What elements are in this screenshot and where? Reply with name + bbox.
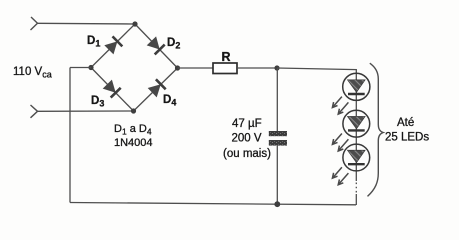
diode D1 <box>104 36 122 54</box>
diode D3 <box>103 80 121 98</box>
wire: bridge edge top-right (T node to R node) <box>135 24 178 68</box>
brace (right curly bracket) <box>368 63 384 196</box>
wire: bridge edge bottom-right (B node to R node) <box>134 68 178 111</box>
diode D2 <box>147 36 165 54</box>
svg-text:Até: Até <box>397 117 414 129</box>
node: bridge left junction <box>88 65 93 70</box>
wire: bridge edge bottom-left (L node to B node) <box>91 68 134 112</box>
svg-text:R: R <box>222 50 231 64</box>
svg-text:200 V: 200 V <box>232 133 262 145</box>
wire: capacitor bottom lead <box>276 146 278 205</box>
LED 1 <box>343 73 370 100</box>
wire: LED column vertical <box>355 75 357 182</box>
AC input terminal 1 (top-left arrow) <box>31 17 38 30</box>
wire: dotted continuation below LED3 <box>355 183 357 195</box>
wire: capacitor node to LED column top <box>277 68 356 75</box>
wire: LED column bottom to rail <box>355 194 357 205</box>
wire: bridge edge top-left (L node to T node) <box>91 24 135 68</box>
svg-text:1N4004: 1N4004 <box>114 137 153 149</box>
wire: resistor to capacitor node <box>237 67 277 69</box>
capacitor C1 plate 2 <box>269 140 287 146</box>
wire: terminal 2 to bridge bottom node <box>38 110 134 112</box>
wire: left rail vertical down <box>69 68 71 203</box>
LED 3 <box>343 144 370 171</box>
diode D4 <box>148 79 166 97</box>
node: bridge right junction <box>175 65 180 70</box>
LED 2 <box>343 110 370 137</box>
LED 3 emission arrows <box>332 167 348 185</box>
resistor R <box>213 63 237 74</box>
LED 1 emission arrows <box>332 97 348 115</box>
wire: bottom rail <box>70 203 356 205</box>
svg-text:47 µF: 47 µF <box>232 118 262 130</box>
svg-text:(ou mais): (ou mais) <box>223 148 271 160</box>
AC input terminal 2 (bottom-left arrow) <box>31 105 38 118</box>
node: capacitor bottom junction <box>274 201 280 207</box>
node: bridge bottom junction <box>131 108 136 113</box>
node: bridge top junction <box>132 21 137 26</box>
svg-text:D1 a D4: D1 a D4 <box>114 123 152 136</box>
node: capacitor top junction <box>274 65 279 70</box>
wire: bridge right node to resistor <box>178 67 214 69</box>
wire: bridge left node to left rail <box>70 67 91 69</box>
capacitor C1 plate 1 <box>269 131 287 136</box>
wire: capacitor top lead <box>276 68 278 131</box>
LED 2 emission arrows <box>332 134 348 152</box>
wire: terminal 1 to bridge top node <box>38 22 136 25</box>
svg-text:25 LEDs: 25 LEDs <box>385 131 429 143</box>
